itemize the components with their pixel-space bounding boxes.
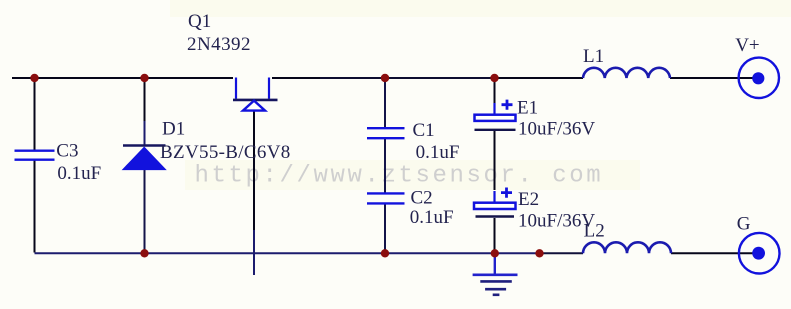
svg-text:2N4392: 2N4392	[187, 34, 251, 55]
svg-text:10uF/36V: 10uF/36V	[518, 118, 595, 139]
svg-text:D1: D1	[162, 119, 185, 140]
svg-text:0.1uF: 0.1uF	[416, 142, 460, 163]
svg-text:com: com	[552, 162, 603, 189]
svg-text:0.1uF: 0.1uF	[57, 163, 101, 184]
svg-text:E2: E2	[518, 189, 539, 210]
svg-text:http://www.ztsensor.: http://www.ztsensor.	[195, 162, 535, 189]
svg-text:G: G	[737, 214, 751, 235]
svg-text:0.1uF: 0.1uF	[410, 207, 454, 228]
svg-text:V+: V+	[735, 35, 759, 56]
svg-text:Q1: Q1	[188, 11, 211, 32]
svg-text:BZV55-B/C6V8: BZV55-B/C6V8	[160, 142, 291, 163]
svg-text:L1: L1	[583, 46, 604, 67]
svg-text:C1: C1	[413, 120, 435, 141]
svg-text:C2: C2	[411, 188, 433, 209]
svg-text:L2: L2	[584, 220, 605, 241]
svg-text:E1: E1	[517, 97, 538, 118]
svg-text:C3: C3	[56, 141, 78, 162]
